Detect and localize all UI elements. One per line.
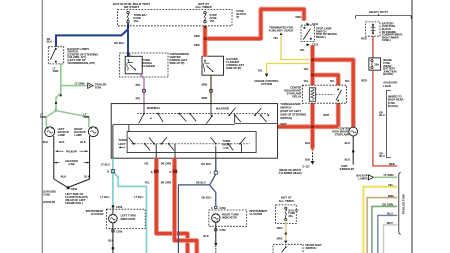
label G-117 ground location: [279, 164, 311, 175]
svg-text:YEL: YEL: [258, 68, 264, 72]
label HOT AT ALL TIMES (fuse block): [195, 2, 211, 9]
svg-text:DK GRN: DK GRN: [161, 161, 171, 165]
wire red battery to inline fuse: [372, 36, 374, 58]
svg-text:SIDE OF IP): SIDE OF IP): [226, 66, 241, 70]
label RIGHT BACKUP LAMP: [74, 127, 86, 137]
headlight switch dashed box: [273, 244, 303, 253]
svg-text:YEL: YEL: [388, 183, 394, 187]
wire org below B/U fuse: [285, 221, 287, 241]
connector circle on ppl wire: [142, 89, 145, 92]
svg-text:FRAME RAIL): FRAME RAIL): [65, 201, 83, 205]
wire yel trailer tow: [363, 187, 397, 253]
label DK BLU (near fuse wire): [114, 41, 124, 45]
svg-text:ORG: ORG: [276, 236, 282, 240]
svg-text:PICKUP: PICKUP: [66, 149, 77, 153]
lamp CHMSL: [349, 127, 358, 136]
svg-text:G-117: G-117: [302, 164, 310, 168]
svg-text:(UNDER IP): (UNDER IP): [340, 167, 355, 171]
label INSTRUMENT CLUSTER left: [86, 209, 104, 216]
dimension arrow PICKUP: [55, 149, 88, 153]
svg-text:YEL: YEL: [300, 48, 306, 52]
svg-text:CLUSTER: CLUSTER: [91, 212, 104, 216]
label HAZARD FLASHER: [226, 57, 244, 70]
labels BLK below CHMSL: [345, 141, 350, 161]
svg-text:CLUSTER: CLUSTER: [250, 212, 263, 216]
svg-text:SWITCH: SWITCH: [305, 246, 316, 250]
svg-text:YEL: YEL: [145, 180, 150, 184]
ground G303 converge wires: [54, 179, 90, 191]
label WIRED TO BODY REAR FUSE BLOCK: [388, 94, 404, 108]
fuse F2 STOP 15A: [204, 11, 217, 23]
svg-text:INDICATOR: INDICATOR: [222, 216, 237, 220]
svg-text:DK BLU: DK BLU: [201, 162, 211, 166]
wire lt-grn trailer tow feed: [374, 176, 398, 178]
svg-text:TOW: TOW: [95, 86, 102, 90]
wire blk below right indicator: [203, 222, 217, 253]
thick wire yel output to bottom: [156, 158, 187, 253]
label BACKUP LAMPS with triangle: [356, 174, 373, 181]
connector C209 below left indicator: [112, 230, 123, 234]
labels ORG (B/U circuit): [276, 226, 282, 241]
relay CHMSL dashed box: [302, 85, 346, 103]
svg-text:INDICATOR: INDICATOR: [121, 217, 136, 221]
connector C209 above left indicator: [112, 205, 123, 209]
fuse F3 B/U-LPS 20A: [285, 207, 299, 221]
labels BLK under lamps: [43, 140, 86, 144]
svg-text:YEL: YEL: [345, 79, 351, 83]
svg-text:LT GRN: LT GRN: [75, 82, 85, 86]
svg-text:B: B: [151, 171, 153, 174]
svg-text:BRN: BRN: [202, 83, 208, 87]
svg-text:RED: RED: [361, 78, 367, 82]
wire dk-blu branch to backup lamp switch: [56, 29, 128, 47]
svg-text:WHT: WHT: [281, 122, 287, 126]
label DK GRN (trailer): [382, 203, 393, 207]
lamp left backup: [45, 127, 55, 137]
wire lt-blu staircase branch to bottom: [115, 173, 147, 253]
svg-text:ORG: ORG: [295, 15, 301, 19]
label BRN (trailer): [388, 194, 394, 198]
svg-text:15A: 15A: [210, 19, 215, 23]
label TURN/HAZARD SWITCH right of box: [280, 102, 306, 120]
label HAZARD: [216, 107, 230, 111]
svg-text:LAMP: LAMP: [58, 133, 66, 137]
thick wire relay outputs below box: [278, 103, 339, 148]
label NORMAL: [147, 106, 161, 110]
label BLU (trailer): [387, 212, 393, 216]
svg-text:LT BLU: LT BLU: [101, 162, 110, 166]
label YEL below C211: [300, 48, 306, 52]
fuse block dashed box (B/U LPS): [276, 205, 297, 224]
wire lt-grn split to left backup lamp: [46, 111, 56, 128]
svg-text:N: N: [170, 171, 172, 174]
connector C209 above right indicator: [211, 206, 226, 210]
svg-text:BRN: BRN: [202, 96, 208, 100]
wire blu trailer tow: [378, 215, 397, 253]
svg-text:LOAD: LOAD: [383, 84, 391, 88]
connector triangle TRAILER TOW: [88, 83, 94, 89]
svg-text:C209: C209: [219, 206, 226, 210]
lamp right backup: [88, 127, 98, 137]
fuse F1 TURN-B/U 20A: [127, 11, 147, 23]
svg-text:TRANSMISSION, M/T): TRANSMISSION, M/T): [67, 61, 95, 65]
switch internals verticals: [113, 125, 129, 159]
battery junction block dashed box: [366, 22, 380, 36]
svg-text:ORG: ORG: [194, 43, 200, 47]
svg-text:GRN: GRN: [83, 115, 89, 119]
label HOT IN RUN BULB TEST: [113, 2, 150, 9]
svg-text:BLOCK): BLOCK): [388, 104, 398, 108]
label INSTRUMENT CLUSTER right: [250, 209, 268, 216]
labels WHT: [281, 113, 330, 126]
svg-text:BLK: BLK: [61, 174, 66, 178]
label YEL (terminated branch): [273, 36, 279, 40]
label CENTER HIGH MOUNT STOPLAMP RELAY: [284, 86, 302, 99]
labels PPL: [136, 83, 141, 100]
label ORG above stop lamp switch: [295, 15, 301, 19]
switch internals row A contacts and arms: [139, 104, 269, 124]
svg-text:YEL: YEL: [330, 79, 336, 83]
svg-text:HAZARD: HAZARD: [216, 107, 230, 111]
label WHT (trailer): [387, 221, 393, 225]
svg-text:YEL: YEL: [303, 79, 309, 83]
svg-text:ALL TIMES: ALL TIMES: [279, 199, 294, 203]
label FUSE BLOCK IP: [237, 9, 247, 19]
svg-text:BLK: BLK: [305, 141, 310, 145]
svg-text:SWITCH): SWITCH): [280, 116, 292, 120]
svg-text:G303: G303: [71, 187, 78, 191]
svg-text:WHT: WHT: [323, 113, 329, 117]
svg-text:LT GRN: LT GRN: [384, 173, 394, 177]
svg-text:BLK: BLK: [59, 140, 64, 144]
svg-text:BLU: BLU: [379, 113, 384, 117]
label RED (below inline fuse): [361, 78, 367, 82]
bracket HEAVY DUTY: [355, 10, 411, 19]
svg-text:DK BLU: DK BLU: [202, 195, 212, 199]
wire blk below left indicator: [108, 223, 114, 253]
connector C211 bottom (arrow + label): [306, 43, 318, 47]
wire dk-grn trailer tow: [372, 206, 397, 253]
svg-text:CAB): CAB): [43, 192, 50, 196]
junction dots on stop wire: [311, 58, 314, 128]
wire dk-blu output to right indicator: [178, 158, 217, 253]
connector square on lt-blu wire: [107, 170, 115, 174]
label AUXILIARY LOAD: [383, 81, 398, 88]
svg-text:PEDAL): PEDAL): [316, 35, 326, 39]
junction on thick wire at stop fuse branch: [204, 37, 207, 40]
svg-text:BLU: BLU: [47, 40, 52, 44]
labels DK BLU on output: [196, 162, 212, 199]
svg-text:HEAVY DUTY: HEAVY DUTY: [369, 10, 388, 14]
taper tip of thick wire above ground: [311, 148, 315, 152]
svg-text:C209: C209: [116, 230, 123, 234]
svg-text:NORMAL: NORMAL: [147, 106, 161, 110]
turn signal flasher box: [125, 54, 142, 74]
page left border: [41, 0, 43, 253]
wire lt-grn from backup switch down: [56, 64, 61, 111]
labels YEL along stop wires: [303, 67, 350, 83]
thick wire stop switch output down with branches: [313, 45, 354, 127]
svg-text:IP: IP: [237, 15, 240, 19]
svg-text:RED: RED: [361, 37, 367, 41]
labels LT BLU: [100, 162, 143, 199]
label STOP LAMP SWITCH: [316, 27, 337, 39]
fuse block IP dashed box: [118, 10, 233, 26]
svg-text:DK BLU: DK BLU: [114, 41, 124, 45]
wire lt-blu from switch box down: [112, 158, 114, 205]
convenience center dashed box: [120, 53, 168, 77]
label YEL (cruise branch): [258, 68, 264, 72]
label CRUISE CONTROL SYSTEM: [254, 79, 279, 86]
label CONVENIENCE CENTER: [170, 52, 190, 65]
bracket auxiliary load dk-blu: [386, 90, 391, 157]
svg-text:C209: C209: [219, 228, 226, 232]
label TRAILER TOW: [95, 83, 107, 90]
svg-text:BLK: BLK: [84, 174, 89, 178]
svg-text:SYSTEM: SYSTEM: [261, 82, 273, 86]
connector C209 below right indicator: [215, 228, 227, 232]
labels DK GRN on output: [161, 161, 171, 184]
label backup lamps switch text: [67, 47, 98, 65]
label HOT AT ALL TIMES (B/U fuse): [279, 196, 294, 203]
switch internals output stubs: [156, 144, 241, 158]
label LT GRN (trailer branch): [75, 82, 85, 86]
svg-text:FLASHER: FLASHER: [142, 64, 155, 68]
wire blk dashed to ground G-117: [311, 152, 315, 165]
label RED (trailer feed): [389, 162, 395, 166]
svg-text:BLK: BLK: [345, 157, 350, 161]
dimension arrow CHASSIS CAB: [54, 159, 89, 166]
svg-text:RED: RED: [389, 162, 395, 166]
label HEADLIGHT SWITCH: [305, 243, 322, 250]
svg-text:TRAILER TOW: TRAILER TOW: [401, 194, 405, 214]
svg-text:RIGHT: RIGHT: [222, 142, 231, 146]
instrument cluster left dashed box: [107, 209, 146, 228]
labels BRN: [202, 83, 208, 100]
bracket TRAILER TOW: [399, 172, 406, 235]
svg-text:BLU: BLU: [387, 212, 393, 216]
svg-text:SIDE OF IP): SIDE OF IP): [170, 61, 185, 65]
wire wht trailer tow: [384, 225, 398, 253]
inline fuse box 30A: [369, 58, 381, 70]
svg-text:ORG: ORG: [276, 226, 282, 230]
connector circle on brn wire: [209, 89, 212, 92]
svg-text:BLU: BLU: [379, 154, 384, 158]
svg-text:YEL: YEL: [144, 161, 149, 165]
svg-text:OR START: OR START: [124, 5, 140, 9]
svg-text:CYLINDER HEAD): CYLINDER HEAD): [279, 171, 302, 175]
svg-text:BLK: BLK: [345, 141, 350, 145]
wire lt-grn branch to trailer tow: [61, 85, 88, 87]
connector arrow below fuse F2: [204, 26, 207, 29]
junction dots on green wire: [55, 94, 62, 111]
turn signal switch big box: [111, 104, 277, 159]
lamp right turn indicator: [212, 214, 220, 223]
lamp left turn indicator: [109, 207, 118, 223]
instrument cluster right dashed box: [209, 210, 247, 226]
connector arrow below fuse F1: [127, 26, 130, 29]
backup lamps switch S1 dashed box: [48, 47, 63, 64]
svg-text:BLK: BLK: [305, 157, 310, 161]
connector squares on thick outputs: [154, 170, 177, 174]
wire brn from hazard flasher to switch box: [210, 75, 212, 103]
wire ppl from flasher to switch box: [140, 74, 145, 104]
label INLINE FUSE: [383, 58, 396, 76]
svg-text:LAMP: LAMP: [74, 133, 82, 137]
thick wire stop-fuse to hazard flasher (halo): [205, 9, 304, 56]
pin letters for thick outputs: [151, 171, 172, 174]
svg-text:C209: C209: [116, 205, 123, 209]
stop lamp switch dashed box: [301, 25, 315, 41]
label TERMINATED FOR AUXILIARY USAGE: [269, 26, 294, 33]
label TURN RIGHT with arrow: [222, 139, 231, 149]
wire yel terminated branch: [280, 32, 311, 59]
label ground location text: [65, 192, 88, 205]
svg-text:YEL: YEL: [303, 67, 309, 71]
svg-text:C211: C211: [312, 22, 319, 26]
labels BLK lower: [61, 174, 90, 178]
svg-text:DK BLU: DK BLU: [196, 180, 206, 184]
label TURN SIGNAL FLASHER: [142, 58, 155, 68]
label LT GRN left lamp: [40, 113, 46, 120]
svg-text:20A: 20A: [134, 19, 139, 23]
svg-text:BLK: BLK: [43, 140, 48, 144]
wire brn trailer tow: [367, 198, 397, 253]
svg-text:BLK: BLK: [108, 238, 113, 242]
wire blk left lamp ground: [53, 136, 55, 179]
label CENTER HIGH MOUNT STOPLAMP: [332, 126, 350, 136]
svg-text:YEL: YEL: [273, 36, 279, 40]
svg-text:DK GRN: DK GRN: [382, 203, 393, 207]
label LT GRN (trailer): [384, 173, 394, 177]
switch internals inner rect: [127, 132, 256, 153]
labels BLK on ground wire: [305, 141, 310, 161]
svg-text:LT BLU: LT BLU: [134, 195, 143, 199]
svg-text:30A: 30A: [374, 62, 379, 66]
labels ORG near stop fuse: [194, 34, 200, 47]
svg-text:PPL: PPL: [136, 96, 141, 100]
svg-text:(PICKUP): (PICKUP): [43, 200, 55, 204]
svg-text:CAB: CAB: [68, 162, 74, 166]
label C335 (UNDER IP): [340, 164, 355, 171]
label LEFT BACKUP LAMP: [58, 127, 70, 137]
svg-text:WHT: WHT: [387, 221, 393, 225]
label LT GRN right lamp: [83, 113, 89, 120]
svg-text:GRN: GRN: [40, 115, 46, 119]
label YEL (trailer): [388, 183, 394, 187]
svg-text:LT BLU: LT BLU: [100, 195, 109, 199]
switch internals row B contacts and arms: [129, 137, 246, 150]
wire yel cruise control branch: [265, 63, 311, 77]
label RIGHT TURN INDICATOR: [222, 212, 239, 219]
svg-text:GRN: GRN: [53, 69, 59, 73]
svg-text:AUXILIARY USAGE: AUXILIARY USAGE: [269, 29, 294, 33]
svg-text:STOPLAMP: STOPLAMP: [335, 132, 350, 136]
switch internals dashed row B: [131, 143, 250, 145]
wire lt-grn split to right backup lamp: [56, 111, 89, 128]
svg-text:BLK: BLK: [203, 234, 208, 238]
label BATTERY JUNCTION BLOCK: [382, 21, 403, 42]
svg-text:BLK: BLK: [80, 140, 85, 144]
label TURN LEFT with arrow: [118, 138, 126, 148]
switch internals dashed row A: [137, 113, 268, 115]
svg-text:COWL): COWL): [382, 38, 391, 42]
svg-text:DK GRN: DK GRN: [161, 180, 171, 184]
labels DK BLU (aux load): [379, 110, 384, 158]
wire dk-blu from fuse F1 to turn signal flasher: [127, 23, 129, 57]
svg-text:LAMPS: LAMPS: [358, 177, 368, 181]
labels YEL on output: [144, 161, 150, 184]
page right border: [411, 0, 413, 253]
label (CHASSIS CAB)/(PICKUP): [43, 190, 56, 204]
label RED (battery): [361, 37, 367, 41]
label LT GRN below switch: [53, 66, 59, 73]
wire blk right lamp ground: [89, 136, 91, 179]
svg-text:C: C: [211, 207, 213, 210]
svg-text:20A: 20A: [288, 215, 293, 218]
svg-text:ORG: ORG: [194, 34, 200, 38]
label LEFT TURN INDICATOR: [121, 214, 136, 221]
svg-text:ALL TIMES: ALL TIMES: [195, 5, 211, 9]
connector arrow into headlight switch: [284, 241, 287, 244]
thick wire dk-grn output to bottom: [175, 158, 197, 253]
svg-text:BLOCK): BLOCK): [383, 72, 393, 76]
wire blk below CHMSL: [352, 136, 355, 165]
svg-text:LEFT: LEFT: [118, 142, 125, 146]
label DK BLU (left, 2 lines): [47, 37, 52, 44]
svg-text:N: N: [107, 171, 109, 174]
svg-text:BRN: BRN: [388, 194, 394, 198]
wire red inline fuse down to trailer tow: [373, 70, 397, 166]
hazard flasher box: [202, 56, 224, 75]
svg-text:PPL: PPL: [136, 83, 141, 87]
connector C211 top (arrow + label): [306, 22, 318, 26]
svg-text:RELAY: RELAY: [293, 95, 302, 99]
switch internals bus line: [113, 115, 278, 124]
